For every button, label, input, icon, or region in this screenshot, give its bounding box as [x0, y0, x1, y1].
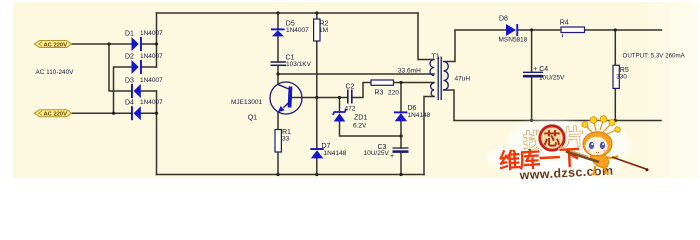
svg-text:1N4007: 1N4007 [140, 99, 163, 106]
svg-text:47uH: 47uH [455, 76, 471, 83]
junction AC1/v1 [107, 42, 110, 45]
wire bottom rail primary side [157, 174, 425, 176]
svg-text:MSN5818: MSN5818 [499, 37, 528, 44]
resistor R4 [561, 27, 585, 33]
wire base line to ZD1 [339, 98, 341, 113]
svg-text:R3: R3 [375, 90, 384, 97]
wire D1 cathode to left bus [142, 43, 157, 45]
svg-text:D3: D3 [125, 78, 134, 85]
diode D6 [394, 111, 407, 121]
wire AC1 flag to D1 anode [72, 43, 132, 45]
wire rail to D5 [277, 13, 279, 29]
wire R3 to feedback winding top [394, 82, 435, 84]
svg-text:MJE13001: MJE13001 [231, 99, 262, 106]
primary winding 33.6mH [430, 60, 434, 76]
svg-text:AC 220V: AC 220V [44, 112, 68, 118]
svg-text:C2: C2 [346, 84, 355, 91]
resistor R1 [275, 130, 281, 153]
svg-text:220: 220 [388, 90, 399, 97]
wire D4 anode to left bus [141, 112, 157, 114]
power port AC 220V (bottom) [35, 110, 72, 118]
wire C2 to R3 jog [352, 83, 371, 98]
svg-text:1M: 1M [319, 27, 328, 34]
wire top DC rail [157, 12, 419, 14]
capacitor C1 [271, 62, 287, 65]
svg-text:1N4007: 1N4007 [140, 30, 163, 37]
wire R5 lower lead [614, 88, 616, 120]
diode D7 [310, 148, 323, 158]
wire ZD1 to D6/C3 node [340, 122, 402, 137]
svg-text:10U/25V: 10U/25V [539, 75, 565, 82]
svg-text:1N4148: 1N4148 [324, 150, 347, 157]
svg-text:1N4007: 1N4007 [286, 27, 309, 34]
wire D8 to R4 [518, 29, 561, 31]
diode D1 [132, 37, 142, 51]
wire C4 lower lead [531, 77, 533, 121]
mascot [566, 116, 649, 176]
junction AC2/v2 [112, 112, 115, 115]
junction collector node [276, 72, 279, 75]
junction R2/top rail [315, 11, 318, 14]
svg-text:1N4007: 1N4007 [140, 53, 163, 60]
svg-text:330: 330 [616, 73, 627, 80]
pin mark R4 [562, 34, 564, 37]
diode D8 [506, 24, 518, 36]
capacitor C2 [348, 90, 352, 104]
wire base line down to D7 [316, 98, 318, 150]
wire R5 upper lead [614, 30, 616, 65]
junction D8/C4 [530, 28, 533, 31]
junction R3/D6 [399, 81, 402, 84]
wire feedback winding bottom to bottom rail [424, 97, 434, 175]
wire secondary bottom rail [444, 90, 662, 121]
wire vertical bus D1-D3 (AC1 to D3 cathode) [109, 44, 131, 91]
wire left bus upper segment [156, 13, 158, 67]
wire D2 cathode to left bus [142, 66, 157, 68]
wire R2 to base line [316, 41, 318, 98]
transistor Q1 [270, 82, 302, 114]
junction R4/R5 [614, 28, 617, 31]
wire C1 to collector node [277, 65, 279, 84]
svg-text:D4: D4 [125, 100, 134, 107]
svg-text:T1: T1 [432, 54, 440, 61]
diode D4 [131, 106, 141, 120]
resistor R2 [314, 19, 320, 41]
power port AC 220V (top) [35, 41, 72, 49]
diode D2 [132, 60, 142, 74]
svg-text:1N4007: 1N4007 [140, 77, 163, 84]
junction R5/secondary rail [614, 119, 617, 122]
svg-text:Q1: Q1 [248, 115, 257, 122]
svg-text:472: 472 [345, 106, 356, 113]
svg-text:103/1KV: 103/1KV [286, 61, 312, 68]
svg-text:10U/25V: 10U/25V [364, 150, 390, 157]
junction R1/bottom rail [276, 173, 279, 176]
svg-text:+: + [390, 153, 394, 160]
watermark dzsc.com [488, 116, 649, 183]
capacitor C4 polarized [523, 72, 543, 76]
svg-text:OUTPUT: 5.3V 260mA: OUTPUT: 5.3V 260mA [623, 53, 686, 60]
svg-text:ZD1: ZD1 [354, 115, 367, 122]
wire R1 to bottom rail [277, 152, 279, 175]
junction D5 string/top rail [276, 11, 279, 14]
wire D5 to C1 [277, 37, 279, 63]
wire secondary top to D8 [444, 30, 507, 62]
svg-text:AC 110-240V: AC 110-240V [36, 69, 75, 76]
zener diode ZD1 [333, 109, 346, 121]
transformer T1 [430, 57, 448, 101]
wire left bus lower segment [156, 91, 158, 175]
wire D6 to C3 [400, 121, 402, 148]
resistor R3 [371, 80, 394, 85]
junction base/ZD1 [338, 96, 341, 99]
wire Q1 emitter to R1 [277, 112, 279, 129]
capacitor C3 polarized [390, 148, 409, 160]
diode D5 [271, 28, 285, 36]
junction ZD1 link/D6-C3 [399, 134, 402, 137]
wire C4 upper lead [531, 30, 533, 72]
wire D7 to bottom rail [316, 159, 318, 175]
svg-text:33: 33 [282, 136, 290, 143]
junction D4/left bus [155, 112, 158, 115]
wire AC2 flag to D4 cathode [72, 112, 132, 114]
junction C3/bottom rail [399, 173, 402, 176]
svg-text:D1: D1 [125, 31, 134, 38]
svg-text:6.2V: 6.2V [353, 123, 367, 130]
svg-text:AC 220V: AC 220V [44, 42, 68, 48]
junction base/R2-D7 line [315, 96, 318, 99]
svg-text:+ C4: + C4 [533, 66, 548, 73]
wire D3 anode to left bus [141, 90, 157, 92]
svg-text:D7: D7 [322, 143, 331, 150]
wire C3 to bottom rail [400, 152, 402, 175]
wire collector node to primary winding (33.6mH line) [278, 73, 434, 75]
wire R4 to output plus end [585, 29, 662, 31]
core [437, 57, 439, 101]
svg-text:1N4148: 1N4148 [408, 112, 431, 119]
svg-text:D2: D2 [125, 54, 134, 61]
svg-text:D8: D8 [499, 16, 508, 23]
junction C4/secondary rail [530, 119, 533, 122]
wire R3/D6 node down to D6 [400, 83, 402, 112]
feedback winding [431, 83, 434, 97]
junction D1/left bus [155, 42, 158, 45]
wire rail to R2 [316, 13, 318, 19]
diode D3 [131, 84, 141, 98]
junction D7/bottom rail [315, 173, 318, 176]
svg-text:33.6mH: 33.6mH [398, 68, 421, 75]
secondary winding 47uH [444, 62, 449, 91]
resistor R5 [613, 65, 619, 88]
svg-text:R4: R4 [560, 20, 569, 27]
wire top rail down to primary winding top [418, 13, 434, 60]
wire base line Q1 to C2 [290, 97, 348, 99]
wire vertical bus D2-D4 (AC2 to D2 anode) [114, 67, 132, 113]
